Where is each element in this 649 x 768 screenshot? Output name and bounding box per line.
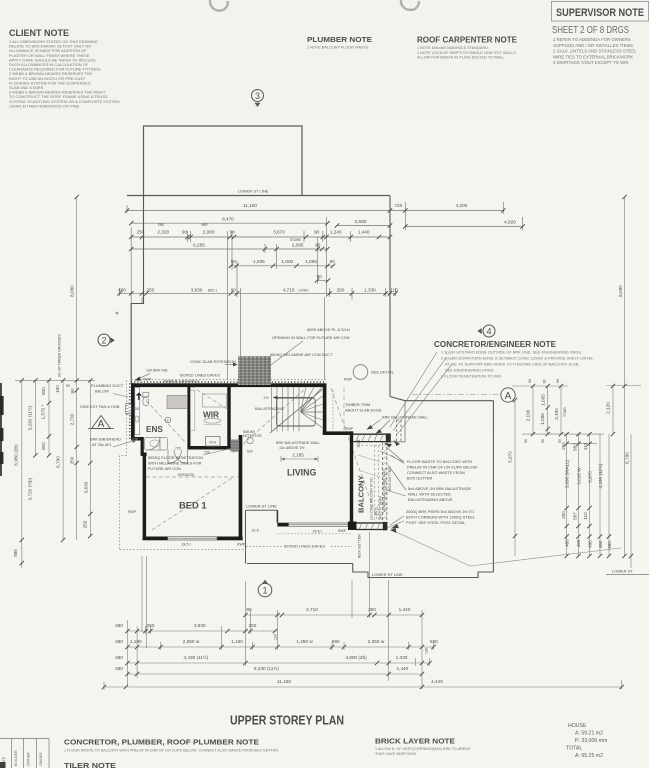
brick layer note body (375, 747, 471, 756)
svg-text:480: 480 (115, 666, 123, 671)
left dim ticks (20, 378, 24, 382)
svg-text:BRK BALUSTRADE WALL: BRK BALUSTRADE WALL (382, 415, 429, 420)
svg-text:90: 90 (182, 230, 188, 235)
ENS wc (143, 393, 149, 397)
svg-text:FUTURE AIR CON: FUTURE AIR CON (148, 466, 181, 471)
svg-text:PRELAY IN CNR OF LIN CUPD BELO: PRELAY IN CNR OF LIN CUPD BELOW (407, 465, 478, 470)
brk bulkhead note (90, 437, 121, 448)
svg-text:ROOF CARPENTER NOTE: ROOF CARPENTER NOTE (417, 36, 517, 45)
svg-text:11,150: 11,150 (277, 679, 291, 684)
wall: ENS WIR bottom (187, 446, 241, 450)
svg-text:250: 250 (248, 623, 256, 628)
svg-text:2,000: 2,000 (203, 230, 215, 235)
svg-text:1,440: 1,440 (399, 607, 411, 612)
svg-text:BOXED LINED EAVES: BOXED LINED EAVES (180, 373, 220, 378)
svg-text:1,095: 1,095 (305, 259, 317, 264)
stair vert guide dashes (343, 387, 345, 433)
svg-text:90: 90 (524, 439, 528, 443)
svg-text:STAIRS: STAIRS (290, 238, 301, 242)
marker circle 3 (252, 90, 264, 108)
svg-text:RWP: RWP (237, 543, 246, 547)
svg-text:120: 120 (274, 634, 278, 640)
svg-text:2,185: 2,185 (292, 453, 304, 458)
wall: balcony left (350, 431, 353, 526)
svg-text:550SQ MELAMINE AIR CON DUCT: 550SQ MELAMINE AIR CON DUCT (270, 352, 333, 357)
svg-text:BED 1: BED 1 (208, 288, 217, 292)
wall: plan right exterior (stairs) (323, 385, 327, 435)
svg-text:BED 1: BED 1 (179, 500, 207, 511)
lower storey line top (127, 195, 390, 197)
svg-text:1,330: 1,330 (396, 655, 408, 660)
wall: WIR right (227, 385, 230, 450)
section marker A right (circle) (501, 388, 515, 402)
see detail symbol (353, 365, 368, 380)
svg-text:WITH MELAMINE SIDES FOR: WITH MELAMINE SIDES FOR (148, 461, 202, 466)
svg-text:3,630: 3,630 (84, 481, 89, 493)
balcony internal fall lines (358, 455, 380, 477)
svg-text:USING EITHER HARDWOOD OR PINE: USING EITHER HARDWOOD OR PINE (9, 103, 80, 108)
svg-text:800: 800 (41, 442, 46, 450)
dashed roof lines inside plan (137, 386, 377, 530)
balcony right dashed balustrade (383, 442, 387, 522)
ENS bath bottom (145, 438, 168, 451)
svg-text:90: 90 (528, 379, 532, 383)
svg-text:CLIENT NOTE: CLIENT NOTE (9, 28, 69, 38)
svg-text:4,430 (11½): 4,430 (11½) (184, 654, 209, 660)
balcony roof edge (390, 401, 405, 442)
svg-text:2,050 w: 2,050 w (183, 639, 200, 644)
wall: ENS WIR divider (187, 385, 190, 447)
svg-text:4,710: 4,710 (283, 287, 295, 292)
svg-text:A: 59.21 m2: A: 59.21 m2 (575, 731, 603, 737)
balcony small rotated notes (370, 477, 383, 520)
svg-text:1,440: 1,440 (358, 230, 370, 235)
svg-text:130: 130 (425, 648, 429, 654)
svg-text:250: 250 (368, 607, 376, 612)
wall: ENS nib horizontal (141, 453, 147, 456)
svg-text:250: 250 (147, 623, 155, 628)
svg-text:1,095: 1,095 (541, 394, 546, 406)
stairs direction arrow (277, 397, 313, 399)
svg-text:SEE ENGINEERING DRGS: SEE ENGINEERING DRGS (445, 368, 494, 373)
top dimension lines (120, 196, 523, 380)
svg-text:90: 90 (558, 439, 562, 443)
svg-text:4,800 (2b): 4,800 (2b) (345, 655, 367, 660)
wall: living bottom segment (277, 523, 288, 527)
svg-text:8,080: 8,080 (70, 285, 75, 297)
svg-text:490: 490 (588, 540, 593, 548)
svg-text:5x4 ABOVE 3½ BRK BALUSTRADE: 5x4 ABOVE 3½ BRK BALUSTRADE (408, 486, 472, 491)
svg-text:AT 25c AFL: AT 25c AFL (92, 442, 113, 447)
client note body (9, 39, 120, 108)
svg-text:250: 250 (83, 520, 88, 528)
svg-text:3,970: 3,970 (588, 471, 593, 483)
svg-text:LOWER ST LINE: LOWER ST LINE (246, 504, 277, 509)
right dimension verticals (512, 197, 641, 568)
house area block (566, 723, 607, 759)
svg-text:3,930: 3,930 (191, 287, 203, 292)
stairs break line (270, 388, 324, 433)
brk piers note right (406, 509, 476, 525)
svg-text:LOWER ST LINE: LOWER ST LINE (372, 572, 403, 577)
supervisor note box (552, 2, 649, 22)
wall: stairs bottom horizontal (323, 431, 353, 435)
balcony top parapet wall (353, 433, 391, 442)
wall: ENS bottom step (131, 437, 144, 441)
svg-text:4W BRK BALUSTRADE WALL: 4W BRK BALUSTRADE WALL (383, 468, 387, 512)
svg-text:2: 2 (101, 336, 106, 346)
svg-text:830: 830 (41, 387, 46, 395)
svg-text:100 BRK N/B: 100 BRK N/B (146, 369, 168, 373)
svg-text:BOX GUTTER: BOX GUTTER (407, 476, 432, 481)
svg-text:WIRE TIES TO EXTERNAL BRICKWOR: WIRE TIES TO EXTERNAL BRICKWORK (553, 54, 633, 59)
top dim ticks row5 (229, 264, 233, 268)
ENS door arc (147, 437, 160, 450)
svg-text:90: 90 (230, 230, 236, 235)
bottom dim ticks B3 (125, 645, 129, 649)
svg-text:1 NOTE BALCONY FLOOR WASTE: 1 NOTE BALCONY FLOOR WASTE (307, 46, 369, 50)
svg-text:3,930: 3,930 (194, 623, 206, 628)
scan artifact: left edge marks (0, 383, 2, 476)
svg-text:ALLOW FOR BREAK IN PLATE BOLTE: ALLOW FOR BREAK IN PLATE BOLTED TO WALL (417, 56, 504, 60)
svg-text:2,050 w: 2,050 w (368, 639, 385, 644)
timber trim about slab edge (345, 402, 382, 413)
svg-text:8,470: 8,470 (222, 217, 234, 222)
svg-text:LIVING: LIVING (298, 288, 309, 292)
svg-text:1 REFER TO ADDENDA FOR OWNERS: 1 REFER TO ADDENDA FOR OWNERS (553, 37, 631, 42)
wall: living/balcony corner post (348, 522, 357, 531)
svg-text:1: 1 (262, 586, 267, 596)
svg-text:1,450 w: 1,450 w (296, 639, 313, 644)
svg-text:2Wx7t FT BEAM: 2Wx7t FT BEAM (379, 496, 383, 520)
top dim guide verticals (127, 196, 523, 293)
window living bottom (289, 523, 349, 526)
svg-text:BALCONY: BALCONY (357, 475, 366, 513)
stairs handrail (277, 398, 316, 426)
svg-text:2,120: 2,120 (606, 402, 611, 414)
roof carpenter note body (417, 46, 517, 60)
bottom dim ticks B2 (125, 629, 129, 633)
bottom dim ticks B1 (243, 613, 247, 617)
svg-text:2 NOTE LOCN OF RWP'S TO SINGL: 2 NOTE LOCN OF RWP'S TO SINGLE LEAF EXT … (417, 51, 517, 55)
svg-text:90: 90 (556, 379, 560, 383)
svg-text:4,190 (11½): 4,190 (11½) (597, 463, 603, 488)
svg-text:1 ALLOW N. OF VERT(C)PENING(M: 1 ALLOW N. OF VERT(C)PENING(MAX) BRK TO … (375, 747, 471, 751)
595sq floor penetration note (148, 455, 203, 471)
manhole (206, 437, 221, 447)
svg-text:480: 480 (115, 655, 123, 660)
svg-text:1,570 *: 1,570 * (41, 404, 46, 419)
ENS vanity (135, 388, 140, 435)
svg-text:SIDE EXT FAN & HOB: SIDE EXT FAN & HOB (80, 404, 120, 409)
svg-text:SHEET 2 OF 8 DRGS: SHEET 2 OF 8 DRGS (552, 25, 629, 36)
svg-text:595SQ FLOOR PENETRATION: 595SQ FLOOR PENETRATION (148, 455, 203, 460)
scan artifact: clip hook (401, 0, 419, 10)
svg-text:2½: 2½ (264, 396, 269, 400)
svg-text:90: 90 (317, 274, 323, 279)
svg-text:HOUSE: HOUSE (568, 723, 587, 729)
svg-text:250: 250 (70, 456, 75, 464)
smoke detector (247, 437, 253, 443)
concretor/engineer note body (441, 350, 594, 379)
svg-text:BOTH CORNERS WITH 100SQ STEEL: BOTH CORNERS WITH 100SQ STEEL (406, 515, 476, 520)
stairs treads (272, 387, 323, 431)
svg-text:2500Q BRK PIERS 5x4 ABOVE 3½ T: 2500Q BRK PIERS 5x4 ABOVE 3½ TO (406, 509, 474, 514)
top dim ticks row4 (129, 247, 133, 251)
svg-text:9,230 (11½): 9,230 (11½) (254, 665, 279, 671)
wall: living left vertical (step) (276, 510, 278, 523)
svg-text:160 UP TIMBER GROUNDS: 160 UP TIMBER GROUNDS (58, 334, 62, 378)
ENS duct arrow (137, 394, 141, 401)
svg-text:2,730: 2,730 (70, 413, 75, 425)
lower storey outline left step (131, 196, 143, 384)
svg-text:5,970: 5,970 (508, 451, 513, 463)
balcony bottom parapet wall (357, 522, 388, 530)
svg-text:THAT HAVE SKIRTINGS.: THAT HAVE SKIRTINGS. (375, 752, 417, 756)
svg-text:4,200: 4,200 (456, 203, 468, 208)
svg-text:250: 250 (146, 287, 154, 292)
marker circle 4 (478, 325, 496, 337)
wall: BED1/hall right vertical (239, 435, 243, 540)
upper roof rectangle (144, 126, 303, 196)
wall hatch serration top (131, 381, 326, 383)
svg-text:480: 480 (565, 539, 570, 547)
duct shaded square lower (231, 440, 239, 452)
wall: ENS step vertical (141, 437, 144, 454)
svg-text:BOXED LINED EAVES: BOXED LINED EAVES (284, 544, 325, 549)
svg-text:1,240: 1,240 (330, 230, 342, 235)
svg-text:3,720 (½b): 3,720 (½b) (27, 477, 33, 500)
svg-text:1,086: 1,086 (540, 413, 545, 425)
plumbing duct hatched box on wall (126, 404, 131, 415)
svg-text:500: 500 (133, 406, 140, 411)
svg-text:490: 490 (598, 540, 603, 548)
svg-text:TIMBER GROUNDS: TIMBER GROUNDS (163, 378, 199, 383)
floor waste note right (407, 459, 478, 481)
bottom dimension lines (104, 532, 622, 690)
svg-text:RWP: RWP (143, 378, 152, 382)
WIR shelf under label (204, 418, 221, 423)
svg-text:587: 587 (573, 443, 578, 451)
svg-text:DRS/DATA: DRS/DATA (178, 473, 195, 477)
svg-text:250: 250 (337, 287, 345, 292)
svg-text:720: 720 (395, 203, 403, 208)
svg-text:3,670: 3,670 (273, 230, 285, 235)
svg-text:2,190: 2,190 (554, 408, 559, 420)
svg-text:1,000: 1,000 (281, 259, 293, 264)
svg-text:LOWER ST: LOWER ST (612, 569, 633, 574)
svg-text:3,690 (WALL): 3,690 (WALL) (565, 459, 570, 488)
svg-text:590: 590 (430, 639, 438, 644)
svg-text:16-6: 16-6 (251, 529, 258, 533)
svg-text:350/1: 350/1 (357, 439, 361, 447)
svg-text:TIMBER TRIM: TIMBER TRIM (345, 402, 370, 407)
svg-text:PLUMBER NOTE: PLUMBER NOTE (307, 35, 372, 44)
svg-text:M.H: M.H (209, 440, 216, 444)
svg-text:6,285: 6,285 (193, 242, 205, 247)
supervisor note body (553, 37, 637, 65)
svg-text:6,790: 6,790 (625, 452, 630, 464)
svg-text:2,095: 2,095 (292, 242, 304, 247)
svg-text:110: 110 (583, 442, 588, 450)
top dim ticks row6-7 (315, 278, 319, 282)
svg-text:DETECTOR: DETECTOR (243, 434, 262, 438)
boxed lined eaves label bottom (282, 542, 330, 549)
svg-text:160: 160 (55, 385, 60, 393)
WIR shelves top (203, 394, 227, 407)
wall: top exterior wall (131, 383, 326, 387)
right dim rotated labels (508, 285, 630, 549)
svg-text:RWP: RWP (338, 529, 347, 533)
svg-text:1,330: 1,330 (364, 287, 376, 292)
svg-text:2,680: 2,680 (355, 219, 367, 224)
svg-text:UPPER STOREY PLAN: UPPER STOREY PLAN (230, 714, 344, 728)
svg-text:CONCRETOR, PLUMBER, ROOF PLUMB: CONCRETOR, PLUMBER, ROOF PLUMBER NOTE (64, 738, 259, 747)
svg-text:1,190: 1,190 (130, 639, 142, 644)
balustrade note right (408, 486, 472, 502)
bottom dim ticks B4 (125, 661, 129, 665)
bottom dim labels (115, 607, 443, 684)
svg-text:1LD CONC BALCONY AT 26c: 1LD CONC BALCONY AT 26c (370, 477, 374, 520)
svg-text:BRICK LAYER NOTE: BRICK LAYER NOTE (375, 737, 455, 746)
svg-text:480: 480 (607, 541, 612, 549)
svg-text:POST. SEE STEEL POST DETAIL: POST. SEE STEEL POST DETAIL (406, 520, 466, 525)
svg-text:11,150: 11,150 (243, 203, 257, 208)
svg-text:BALUSTRADING ABOVE: BALUSTRADING ABOVE (408, 497, 453, 502)
svg-text:CONCRETOR/ENGINEER NOTE: CONCRETOR/ENGINEER NOTE (434, 339, 556, 349)
top dim ticks row1-2 (125, 208, 129, 212)
svg-text:600H ABOVE PL & S/LN: 600H ABOVE PL & S/LN (307, 327, 350, 332)
svg-text:4: 4 (486, 327, 491, 337)
eaves dotted outline left/bottom (120, 380, 353, 550)
door arcs hall (168, 450, 188, 464)
svg-text:13c ABOVE 3½: 13c ABOVE 3½ (279, 446, 305, 450)
svg-text:ENS: ENS (146, 425, 163, 434)
marker circle 1 (258, 580, 272, 597)
svg-text:ABOUT SLAB EDGE: ABOUT SLAB EDGE (345, 408, 382, 413)
scan artifact: bottom-left corner marks (0, 762, 6, 768)
svg-text:90: 90 (543, 380, 547, 384)
svg-text:1 3(x)90 UPSTAND EDGE OUTSIDE: 1 3(x)90 UPSTAND EDGE OUTSIDE OF BRK LIN… (441, 350, 582, 355)
svg-text:1 NOTE 600x400 MANHOLE STANDA: 1 NOTE 600x400 MANHOLE STANDARD. (417, 46, 489, 50)
svg-text:RWP: RWP (128, 510, 137, 514)
svg-text:1,190: 1,190 (231, 639, 243, 644)
svg-text:90: 90 (246, 607, 252, 612)
svg-text:480: 480 (115, 623, 123, 628)
svg-text:LOWER ST LINE: LOWER ST LINE (238, 189, 269, 194)
svg-text:90: 90 (231, 287, 237, 292)
svg-text:480: 480 (118, 287, 126, 292)
left dimension verticals (15, 197, 95, 568)
svg-text:4,710: 4,710 (306, 607, 318, 612)
svg-text:OWNER: OWNER (27, 752, 31, 766)
top dim ticks row3 (129, 235, 133, 239)
electrical symbol (165, 417, 171, 423)
svg-text:620: 620 (247, 450, 253, 454)
lower 250/587/110 dims (561, 511, 588, 520)
svg-text:3: 3 (255, 91, 260, 101)
svg-text:90: 90 (330, 259, 336, 264)
svg-text:18-5 t: 18-5 t (181, 543, 190, 547)
svg-text:SUPPLIED AND / OR INSTALLED IT: SUPPLIED AND / OR INSTALLED ITEMS. (553, 43, 634, 48)
svg-text:1 FLOOR WASTE TO BALCONY WITH: 1 FLOOR WASTE TO BALCONY WITH PRELAY IN … (64, 749, 279, 753)
revision table bottom-left (0, 739, 49, 768)
svg-text:STAIR: STAIR (563, 407, 567, 417)
svg-text:PLUMBING DUCT: PLUMBING DUCT (91, 383, 124, 388)
wall: BED1 left exterior (143, 453, 147, 541)
window BED1 bottom (168, 537, 217, 540)
svg-text:3 SKIRTINGS T/OUT EXCEPT TO W: 3 SKIRTINGS T/OUT EXCEPT TO WIR (553, 60, 628, 65)
svg-text:CONNECT ALSO WASTE FROM: CONNECT ALSO WASTE FROM (407, 470, 465, 475)
WIR shelf left (190, 391, 194, 431)
svg-text:110: 110 (583, 512, 588, 520)
svg-text:480: 480 (115, 639, 123, 644)
svg-text:3 FLOOR PENETRATION TO WIR: 3 FLOOR PENETRATION TO WIR (441, 374, 501, 379)
svg-text:250: 250 (561, 511, 566, 519)
wall: BED1 bottom with window (143, 537, 168, 541)
svg-text:4,440: 4,440 (431, 679, 443, 684)
plumbing duct below note (80, 383, 124, 409)
svg-text:BOX GUTTER: BOX GUTTER (388, 467, 392, 491)
svg-text:BRK BALUSTRADE WALL: BRK BALUSTRADE WALL (276, 441, 320, 445)
svg-text:FLOOR WASTE TO BALCONY WITH: FLOOR WASTE TO BALCONY WITH (407, 459, 472, 464)
svg-text:8,080: 8,080 (618, 285, 623, 297)
lower storey right boundary (247, 196, 493, 578)
svg-text:A: A (505, 391, 512, 402)
svg-text:985: 985 (13, 549, 18, 557)
svg-text:90: 90 (66, 384, 70, 388)
bottom dim ticks B6 (102, 685, 106, 689)
lower storey step left of living (246, 510, 278, 563)
svg-text:110: 110 (390, 287, 398, 292)
leader from balcony to note (380, 451, 404, 462)
air con opening note (270, 327, 350, 357)
svg-text:2,320: 2,320 (157, 230, 169, 235)
svg-text:90: 90 (315, 242, 321, 247)
svg-text:3,230 (11½): 3,230 (11½) (27, 405, 33, 430)
svg-text:WIR: WIR (201, 223, 208, 227)
svg-text:SUPERVISOR NOTE: SUPERVISOR NOTE (556, 7, 644, 19)
svg-text:2 GALV. LINTELS AND STAINLESS: 2 GALV. LINTELS AND STAINLESS STEEL (553, 49, 637, 54)
svg-text:P: 33,000 mm: P: 33,000 mm (575, 738, 607, 744)
svg-text:BOX GUTTER: BOX GUTTER (358, 534, 362, 558)
svg-text:ENS: ENS (158, 223, 165, 227)
svg-text:720: 720 (175, 447, 181, 451)
marker circle 2 (98, 334, 115, 346)
svg-text:TOTAL: TOTAL (566, 746, 582, 752)
svg-text:90: 90 (314, 230, 320, 235)
bottom dim guide verticals (104, 532, 622, 690)
balcony inner dashed lines (357, 445, 383, 522)
right dim ticks (513, 398, 517, 402)
svg-text:6,790: 6,790 (56, 456, 61, 468)
leaders to duct (248, 341, 303, 382)
ENS shower (grey) (167, 396, 187, 409)
svg-text:TILER NOTE: TILER NOTE (64, 761, 116, 768)
svg-text:BALUSTRADING: BALUSTRADING (255, 407, 284, 411)
svg-text:90: 90 (70, 388, 75, 394)
svg-text:BRK B/B B/HEAD: BRK B/B B/HEAD (90, 437, 121, 442)
leader lines from engineer note to balcony (390, 352, 452, 435)
svg-text:RWP: RWP (344, 378, 353, 382)
left dim rotated labels (13, 285, 89, 557)
svg-text:RWP: RWP (345, 427, 354, 431)
brk balustrade wall label under stairs (276, 441, 320, 450)
svg-text:LIVING: LIVING (287, 468, 316, 478)
section marker A left (triangle) (88, 416, 114, 431)
svg-text:A: 65.25 m2: A: 65.25 m2 (575, 753, 603, 759)
long leader bottom right (394, 531, 621, 566)
